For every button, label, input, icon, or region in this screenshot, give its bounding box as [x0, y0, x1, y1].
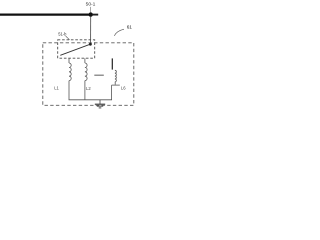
wire: stub from switch box to L1 [68, 58, 70, 63]
wire stub right of junction [93, 14, 99, 16]
switch 51-b dashed box [58, 40, 95, 58]
wire: stub from switch box to L2 [84, 58, 86, 63]
wire: bottom rail [69, 99, 112, 101]
junction dot at node 50-1 [89, 12, 93, 16]
svg-text:L2: L2 [86, 86, 91, 91]
ground bar 1 [95, 103, 105, 105]
ground bar 3 [99, 107, 102, 109]
ground bar 2 [97, 105, 103, 107]
wire: vertical from junction down to switch [90, 17, 92, 45]
leader from label 50-1 to junction [90, 7, 92, 13]
svg-text:50-1: 50-1 [86, 2, 96, 8]
switch contact dot [89, 43, 92, 46]
coupling dash between L2 and L6 [94, 74, 104, 76]
dashed block 61 (outer box) [43, 43, 134, 106]
ground stem [99, 100, 101, 104]
wire: L1 bottom lead [68, 81, 70, 100]
wire: vertical stub above L6 [111, 58, 113, 69]
leader from label 51-b to switch box [66, 36, 70, 40]
wire: thick feed line [0, 13, 89, 15]
svg-text:51-b: 51-b [58, 31, 67, 36]
svg-text:L6: L6 [121, 86, 126, 91]
wire: L6 bottom bar [112, 84, 120, 86]
switch 51-b arm [60, 44, 90, 55]
wire: L6 bottom lead [114, 82, 116, 85]
wire: L6 branch down to rail [111, 85, 113, 100]
inductor L1 [69, 63, 71, 81]
inductor L6 [115, 70, 116, 82]
wire: L2 bottom lead [84, 81, 86, 100]
inductor L2 [85, 63, 87, 81]
svg-text:L1: L1 [54, 85, 59, 90]
svg-text:61: 61 [127, 25, 133, 30]
leader arc from label 61 to box [114, 29, 124, 36]
